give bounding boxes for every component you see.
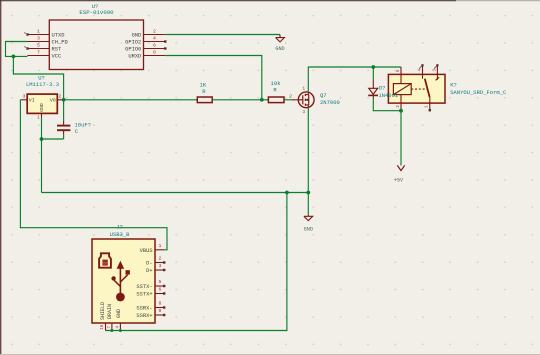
USB plug icon: [99, 253, 111, 267]
relay pin 4 contact NC: [419, 64, 424, 74]
USB pin 2 D-: [146, 256, 165, 267]
svg-text:7: 7: [37, 50, 40, 56]
svg-text:VO: VO: [50, 98, 56, 104]
pin 2 GND: [132, 29, 166, 39]
svg-text:VCC: VCC: [52, 54, 62, 60]
relay pin 1 common: [426, 103, 431, 111]
wire VO junction down to capacitor C: [63, 100, 65, 121]
junction node USB gnd on bottom wire: [119, 329, 122, 332]
power symbol +5V: [394, 165, 405, 183]
svg-text:GND: GND: [116, 309, 122, 318]
svg-text:URXD: URXD: [128, 54, 141, 60]
transistor Q7 2N7000: [298, 87, 340, 114]
svg-text:3: 3: [23, 94, 26, 100]
wire ground rail (LM1117 to Q7 source): [42, 192, 309, 194]
svg-text:ESP-01v090: ESP-01v090: [79, 9, 114, 16]
wire ESP URXD pin8 down to gate node: [165, 56, 261, 100]
USB pin 7 DRAIN: [107, 304, 113, 331]
svg-text:1: 1: [37, 29, 40, 35]
wire Q7 drain up and right to relay coil: [308, 67, 401, 92]
svg-text:DRAIN: DRAIN: [107, 304, 113, 319]
relay pin 2 coil bottom: [397, 103, 401, 111]
svg-text:5: 5: [159, 279, 162, 285]
junction node relay coil bottom / +5V: [399, 109, 403, 113]
wire 1K to junction of URXD: [212, 99, 268, 101]
svg-text:RST: RST: [52, 47, 62, 53]
wire Q7 source down to ground rail: [307, 107, 309, 192]
module U? ESP-01v090 body: [49, 3, 143, 70]
junction node diode branch on drain wire: [371, 65, 375, 69]
svg-text:2N7000: 2N7000: [320, 99, 340, 106]
svg-text:GND: GND: [132, 33, 142, 39]
svg-text:3: 3: [37, 36, 40, 42]
svg-text:2: 2: [153, 29, 156, 35]
screenshot border left edge: [0, 0, 2, 355]
svg-text:1: 1: [159, 243, 162, 249]
pin 1 UTXD: [24, 29, 64, 39]
USB pin 6 SSTX+: [136, 287, 165, 298]
regulator U? LM1117-3.3 body: [26, 74, 59, 113]
svg-text:VI: VI: [29, 98, 35, 104]
svg-text:1N4001: 1N4001: [378, 92, 399, 99]
wire 3.3V rail VO junction to resistor 1K: [64, 99, 198, 101]
Q7 gate pin 2: [289, 93, 298, 100]
svg-text:D-: D-: [146, 261, 152, 267]
USB pin 10 SHIELD: [100, 302, 106, 331]
svg-text:UTXD: UTXD: [52, 33, 65, 39]
svg-text:3: 3: [159, 263, 162, 269]
svg-text:J?: J?: [116, 224, 123, 231]
diode D? 1N4001: [368, 80, 378, 99]
wire CH_PD to VCC (3.3V net): [6, 42, 28, 57]
junction node 3.3V at VCC branch: [12, 55, 16, 59]
junction node source / ground rail: [306, 191, 310, 195]
pin 6 GPIO0: [125, 43, 166, 53]
LM1117 pin 2 VO: [50, 94, 64, 104]
svg-text:USB3_B: USB3_B: [110, 231, 131, 238]
wire 10k to Q7 gate: [284, 99, 292, 101]
wire diode top stub: [372, 67, 374, 80]
ground symbol GND (top right): [275, 35, 284, 53]
svg-text:SANYOU_SRD_Form_C: SANYOU_SRD_Form_C: [450, 89, 507, 96]
svg-text:CH_PD: CH_PD: [52, 40, 68, 46]
svg-text:8: 8: [153, 50, 156, 56]
relay K? SANYOU_SRD_Form_C body: [388, 74, 507, 103]
capacitor C 10uF?: [57, 121, 91, 135]
screenshot border bottom edge: [0, 354, 540, 355]
svg-text:GPIO0: GPIO0: [125, 47, 141, 53]
svg-text:SSTX+: SSTX+: [136, 292, 152, 298]
wire diode cathode to relay coil bottom: [373, 99, 401, 111]
screenshot border top edge: [0, 0, 456, 2]
USB pin 5 SSTX-: [136, 279, 165, 290]
USB pin 9 SSRX+: [136, 308, 165, 319]
svg-text:SSTX-: SSTX-: [136, 284, 152, 290]
svg-text:VBUS: VBUS: [140, 248, 153, 254]
wire capacitor bottom to GND net: [42, 138, 64, 140]
junction node URXD / gate divider: [260, 98, 264, 102]
USB pin 8 SSRX-: [136, 301, 165, 312]
pin 8 URXD: [128, 50, 165, 60]
svg-text:8: 8: [159, 301, 162, 307]
svg-text:+5V: +5V: [394, 178, 404, 184]
pin 3 CH_PD: [28, 36, 68, 46]
wire ground rail down to USB shield/gnd: [106, 193, 287, 331]
svg-text:SSRX-: SSRX-: [136, 306, 152, 312]
junction node USB drain on bottom wire: [110, 329, 113, 332]
svg-text:D?: D?: [379, 85, 386, 92]
USB pin 1 VBUS: [140, 243, 165, 254]
svg-text:SSRX+: SSRX+: [136, 313, 152, 319]
USB pin 3 D+: [146, 263, 165, 274]
connector J? USB3_B body: [92, 224, 155, 323]
pin 4 GPIO2: [125, 36, 166, 46]
svg-text:5: 5: [37, 43, 40, 49]
svg-text:6: 6: [159, 287, 162, 293]
junction node VO / 3.3V rail: [62, 98, 66, 102]
relay pin 5 coil top: [397, 67, 401, 74]
wire 3.3V rail down to LM1117 VO junction: [13, 56, 63, 99]
ground symbol GND (center): [304, 216, 313, 232]
svg-text:GND: GND: [304, 227, 313, 233]
svg-text:10: 10: [101, 324, 105, 330]
junction node USB ground drop: [285, 191, 289, 195]
svg-text:GND: GND: [275, 46, 284, 52]
svg-text:LM1117-3.3: LM1117-3.3: [26, 81, 59, 88]
wire VI 5V net down and to USB VBUS: [20, 100, 167, 250]
junction node at capacitor bottom branch: [40, 137, 44, 141]
wire LM1117 GND pin down to ground rail: [41, 118, 43, 139]
svg-text:6: 6: [153, 43, 156, 49]
svg-text:9: 9: [159, 308, 162, 314]
wire GND rail down: [41, 139, 43, 193]
svg-text:2: 2: [289, 93, 292, 99]
resistor R 1K: [197, 82, 212, 103]
diode D? label: [378, 85, 399, 99]
pin 7 VCC: [28, 50, 62, 60]
LM1117 pin 3 VI: [20, 94, 34, 104]
LM1117 pin 1 GND stub: [37, 113, 41, 120]
wire stub to ground symbol: [307, 193, 309, 217]
resistor R 10k: [268, 80, 284, 102]
pin 5 RST: [24, 43, 62, 53]
svg-text:2: 2: [159, 256, 162, 262]
svg-text:SHIELD: SHIELD: [100, 302, 106, 320]
wire ESP GND pin2 to ground symbol: [165, 34, 280, 36]
wire down to +5V symbol: [400, 111, 402, 166]
USB pin 4 GND: [116, 309, 122, 331]
relay pin 3 contact NO: [433, 64, 438, 74]
USB trident icon: [111, 261, 129, 302]
svg-text:D+: D+: [146, 268, 152, 274]
svg-text:4: 4: [153, 36, 156, 42]
svg-text:K?: K?: [450, 81, 457, 88]
svg-text:2: 2: [58, 94, 61, 100]
svg-text:GND: GND: [39, 103, 45, 112]
svg-text:GPIO2: GPIO2: [125, 40, 141, 46]
wire capacitor bottom stub: [63, 135, 65, 139]
